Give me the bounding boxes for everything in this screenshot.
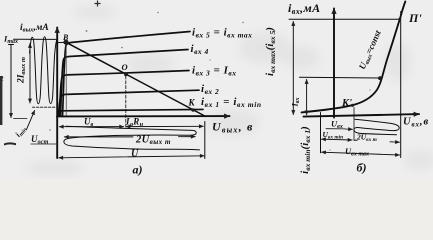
svg-text:U: U [131,149,139,160]
svg-text:В: В [62,33,69,42]
svg-text:б): б) [357,161,367,175]
svg-text:К': К' [341,98,352,109]
svg-text:а): а) [133,163,143,177]
svg-text:П': П' [408,11,422,25]
svg-text:К: К [188,98,196,108]
svg-text:О: О [122,62,128,72]
